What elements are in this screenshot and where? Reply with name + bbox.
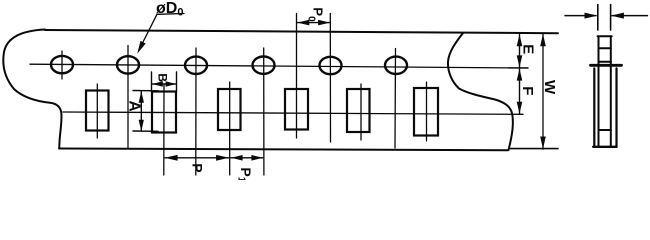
- label E (rotated): [519, 44, 536, 54]
- dimension B extension lines: [152, 72, 177, 92]
- H3 vertical centerline (extends below for P): [195, 48, 197, 175]
- tape right break curve: [448, 33, 513, 150]
- K5 vertical centerline: [360, 84, 362, 140]
- dimension E lower tick: [508, 67, 528, 69]
- A bottom arrowhead: [139, 120, 144, 132]
- side view strip top cap: [598, 35, 612, 37]
- label W (rotated): [541, 80, 558, 95]
- pocket K3: [218, 89, 241, 130]
- dimension P arrow line: [165, 157, 229, 159]
- sprocket-hole horizontal centerline: [30, 64, 528, 68]
- W bottom arrowhead: [540, 137, 546, 150]
- label F (rotated): [519, 86, 536, 95]
- P1 left arrowhead: [231, 155, 243, 161]
- svg-text:A: A: [126, 101, 143, 112]
- dimension F arrow line: [519, 68, 521, 114]
- dimension B arrow line: [153, 83, 176, 85]
- E top arrowhead: [517, 34, 523, 46]
- dimension W arrow line: [542, 34, 544, 150]
- side thickness right-pointing arrowhead: [585, 13, 598, 19]
- side view bottom cap: [593, 146, 616, 148]
- svg-text:W: W: [541, 80, 558, 95]
- sprocket hole H2: [117, 56, 139, 73]
- F bottom arrowhead: [517, 102, 523, 114]
- svg-text:F: F: [519, 86, 536, 95]
- bottom edge extension for W: [509, 148, 558, 150]
- P1 right arrowhead: [251, 155, 263, 161]
- side view strip divider 2: [599, 61, 611, 63]
- leader line for D0: [141, 14, 184, 47]
- K1 vertical centerline: [96, 84, 98, 138]
- pocket K2: [152, 92, 176, 133]
- K2 vertical centerline (extends below for P): [163, 84, 165, 175]
- B right arrowhead: [166, 81, 177, 86]
- label P0 (rotated): [306, 7, 326, 22]
- pocket K1: [86, 91, 109, 131]
- sprocket hole H3: [185, 57, 207, 74]
- K3 vertical centerline (extends below for P/P1): [229, 82, 231, 175]
- sprocket hole H1: [51, 56, 73, 73]
- K6 vertical centerline: [426, 82, 428, 141]
- side view pocket outer walls: [594, 68, 616, 146]
- pocket K5: [347, 89, 370, 132]
- side view thickness ext lines: [598, 5, 611, 31]
- sprocket hole H6: [385, 57, 407, 74]
- H6 vertical centerline: [394, 49, 397, 149]
- dimension A extension ticks: [133, 91, 158, 132]
- tape left break curve: [3, 30, 61, 149]
- H1 vertical centerline: [61, 51, 63, 79]
- sprocket hole H4: [253, 56, 275, 73]
- label P1 (rotated): [236, 167, 255, 182]
- dimension P1 arrow line: [231, 157, 263, 159]
- side view tape strip: [599, 36, 611, 146]
- svg-text:P: P: [190, 163, 206, 172]
- pocket horizontal centerline: [63, 112, 523, 114]
- side view strip divider 1: [599, 47, 611, 49]
- tape top edge: [45, 30, 558, 33]
- side view flange tick: [591, 64, 622, 67]
- dimension A arrow line: [140, 92, 142, 132]
- P0 right arrowhead: [318, 20, 330, 26]
- tape bottom edge: [59, 149, 508, 151]
- E bottom arrowhead: [517, 55, 523, 67]
- label A (rotated): [126, 101, 143, 112]
- svg-text:E: E: [519, 44, 536, 54]
- arrowhead of D0 leader: [137, 41, 146, 54]
- A top arrowhead: [139, 91, 144, 103]
- sprocket hole H5: [320, 57, 342, 74]
- pocket K6: [414, 88, 438, 136]
- P right arrowhead: [216, 155, 229, 161]
- side view lower divider: [599, 129, 611, 131]
- side thickness left-pointing arrowhead: [611, 13, 624, 19]
- H2 vertical centerline: [127, 46, 129, 148]
- P left arrowhead: [165, 155, 178, 161]
- K4 vertical centerline (extends above for P0): [296, 14, 298, 139]
- H4 vertical centerline (extends below for P1): [263, 48, 265, 175]
- P0 left arrowhead: [297, 20, 309, 26]
- B left arrowhead: [152, 81, 163, 86]
- F top arrowhead: [517, 69, 523, 81]
- pocket K4: [285, 89, 308, 130]
- label B (rotated): [156, 73, 170, 82]
- W top arrowhead: [540, 34, 546, 47]
- label P (rotated): [190, 163, 206, 172]
- H5 vertical centerline (extends above for P0): [329, 14, 331, 143]
- dimension P0 arrow line: [298, 22, 330, 24]
- dimension E arrow line: [519, 34, 521, 68]
- side view thickness dim leaders: [565, 15, 648, 17]
- svg-text:B: B: [156, 73, 170, 82]
